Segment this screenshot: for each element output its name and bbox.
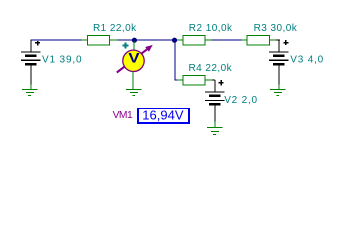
wire: R4 right pin stub (green) [205,79,212,81]
svg-text:V3 4,0: V3 4,0 [290,55,324,66]
wire: R1 to junction B to R2 (navy) [118,39,177,41]
svg-text:V: V [128,50,140,66]
battery V3 plus polarity mark [284,40,289,45]
battery V1 plus polarity mark [35,41,40,46]
svg-text:R2 10,0k: R2 10,0k [189,23,233,34]
svg-text:16,94V: 16,94V [142,107,184,122]
voltmeter VM1 body U [123,50,144,71]
resistor R1 [88,36,110,46]
battery V2 plus polarity mark [218,80,223,85]
wire: R3 right pin stub (green) [270,39,277,41]
wire: R3 to V3 corner (black) [276,40,280,52]
wire: R2 left pin stub (green) [177,39,183,41]
wire: V1 top to R1 (navy) [31,39,82,41]
battery V3 [269,51,289,84]
ground (V3) [270,85,286,96]
wire: R4 to V2 corner (black) [212,80,215,92]
voltmeter VM1 plus polarity mark [123,42,129,48]
svg-text:R4 22,0k: R4 22,0k [189,63,233,74]
wire: R1 right pin stub (green) [110,39,118,41]
VM1 reading box [137,108,190,124]
svg-text:R3 30,0k: R3 30,0k [254,23,298,34]
resistor R2 [183,36,205,46]
wire: R4 left pin stub (green) [177,79,183,81]
svg-text:R1 22,0k: R1 22,0k [93,23,137,34]
wire: R2 to R3 (navy) [212,39,242,41]
svg-text:V1 39,0: V1 39,0 [42,55,82,66]
ground (V2) [207,122,223,135]
node A junction dot (above voltmeter) [132,38,137,43]
wire: R1 left pin stub (green) [82,39,88,41]
battery V1 [21,40,41,85]
resistor R4 [183,76,205,86]
svg-text:VM1: VM1 [113,110,133,121]
ground (voltmeter) [126,90,142,96]
wire: R2 right pin stub (green) [205,39,212,41]
wire: junction A down to voltmeter (green) [133,41,135,50]
wire: voltmeter to ground (green) [132,72,134,90]
battery V2 [205,91,225,121]
voltmeter VM1 arrow [117,49,148,73]
wire: R3 left pin stub (green) [242,39,248,41]
ground (V1) [22,85,38,96]
node B junction dot (to R4 branch) [172,38,177,43]
svg-text:V2 2,0: V2 2,0 [224,95,258,106]
wire: junction B down and to R4 (navy) [175,41,178,80]
resistor R3 [247,36,270,46]
